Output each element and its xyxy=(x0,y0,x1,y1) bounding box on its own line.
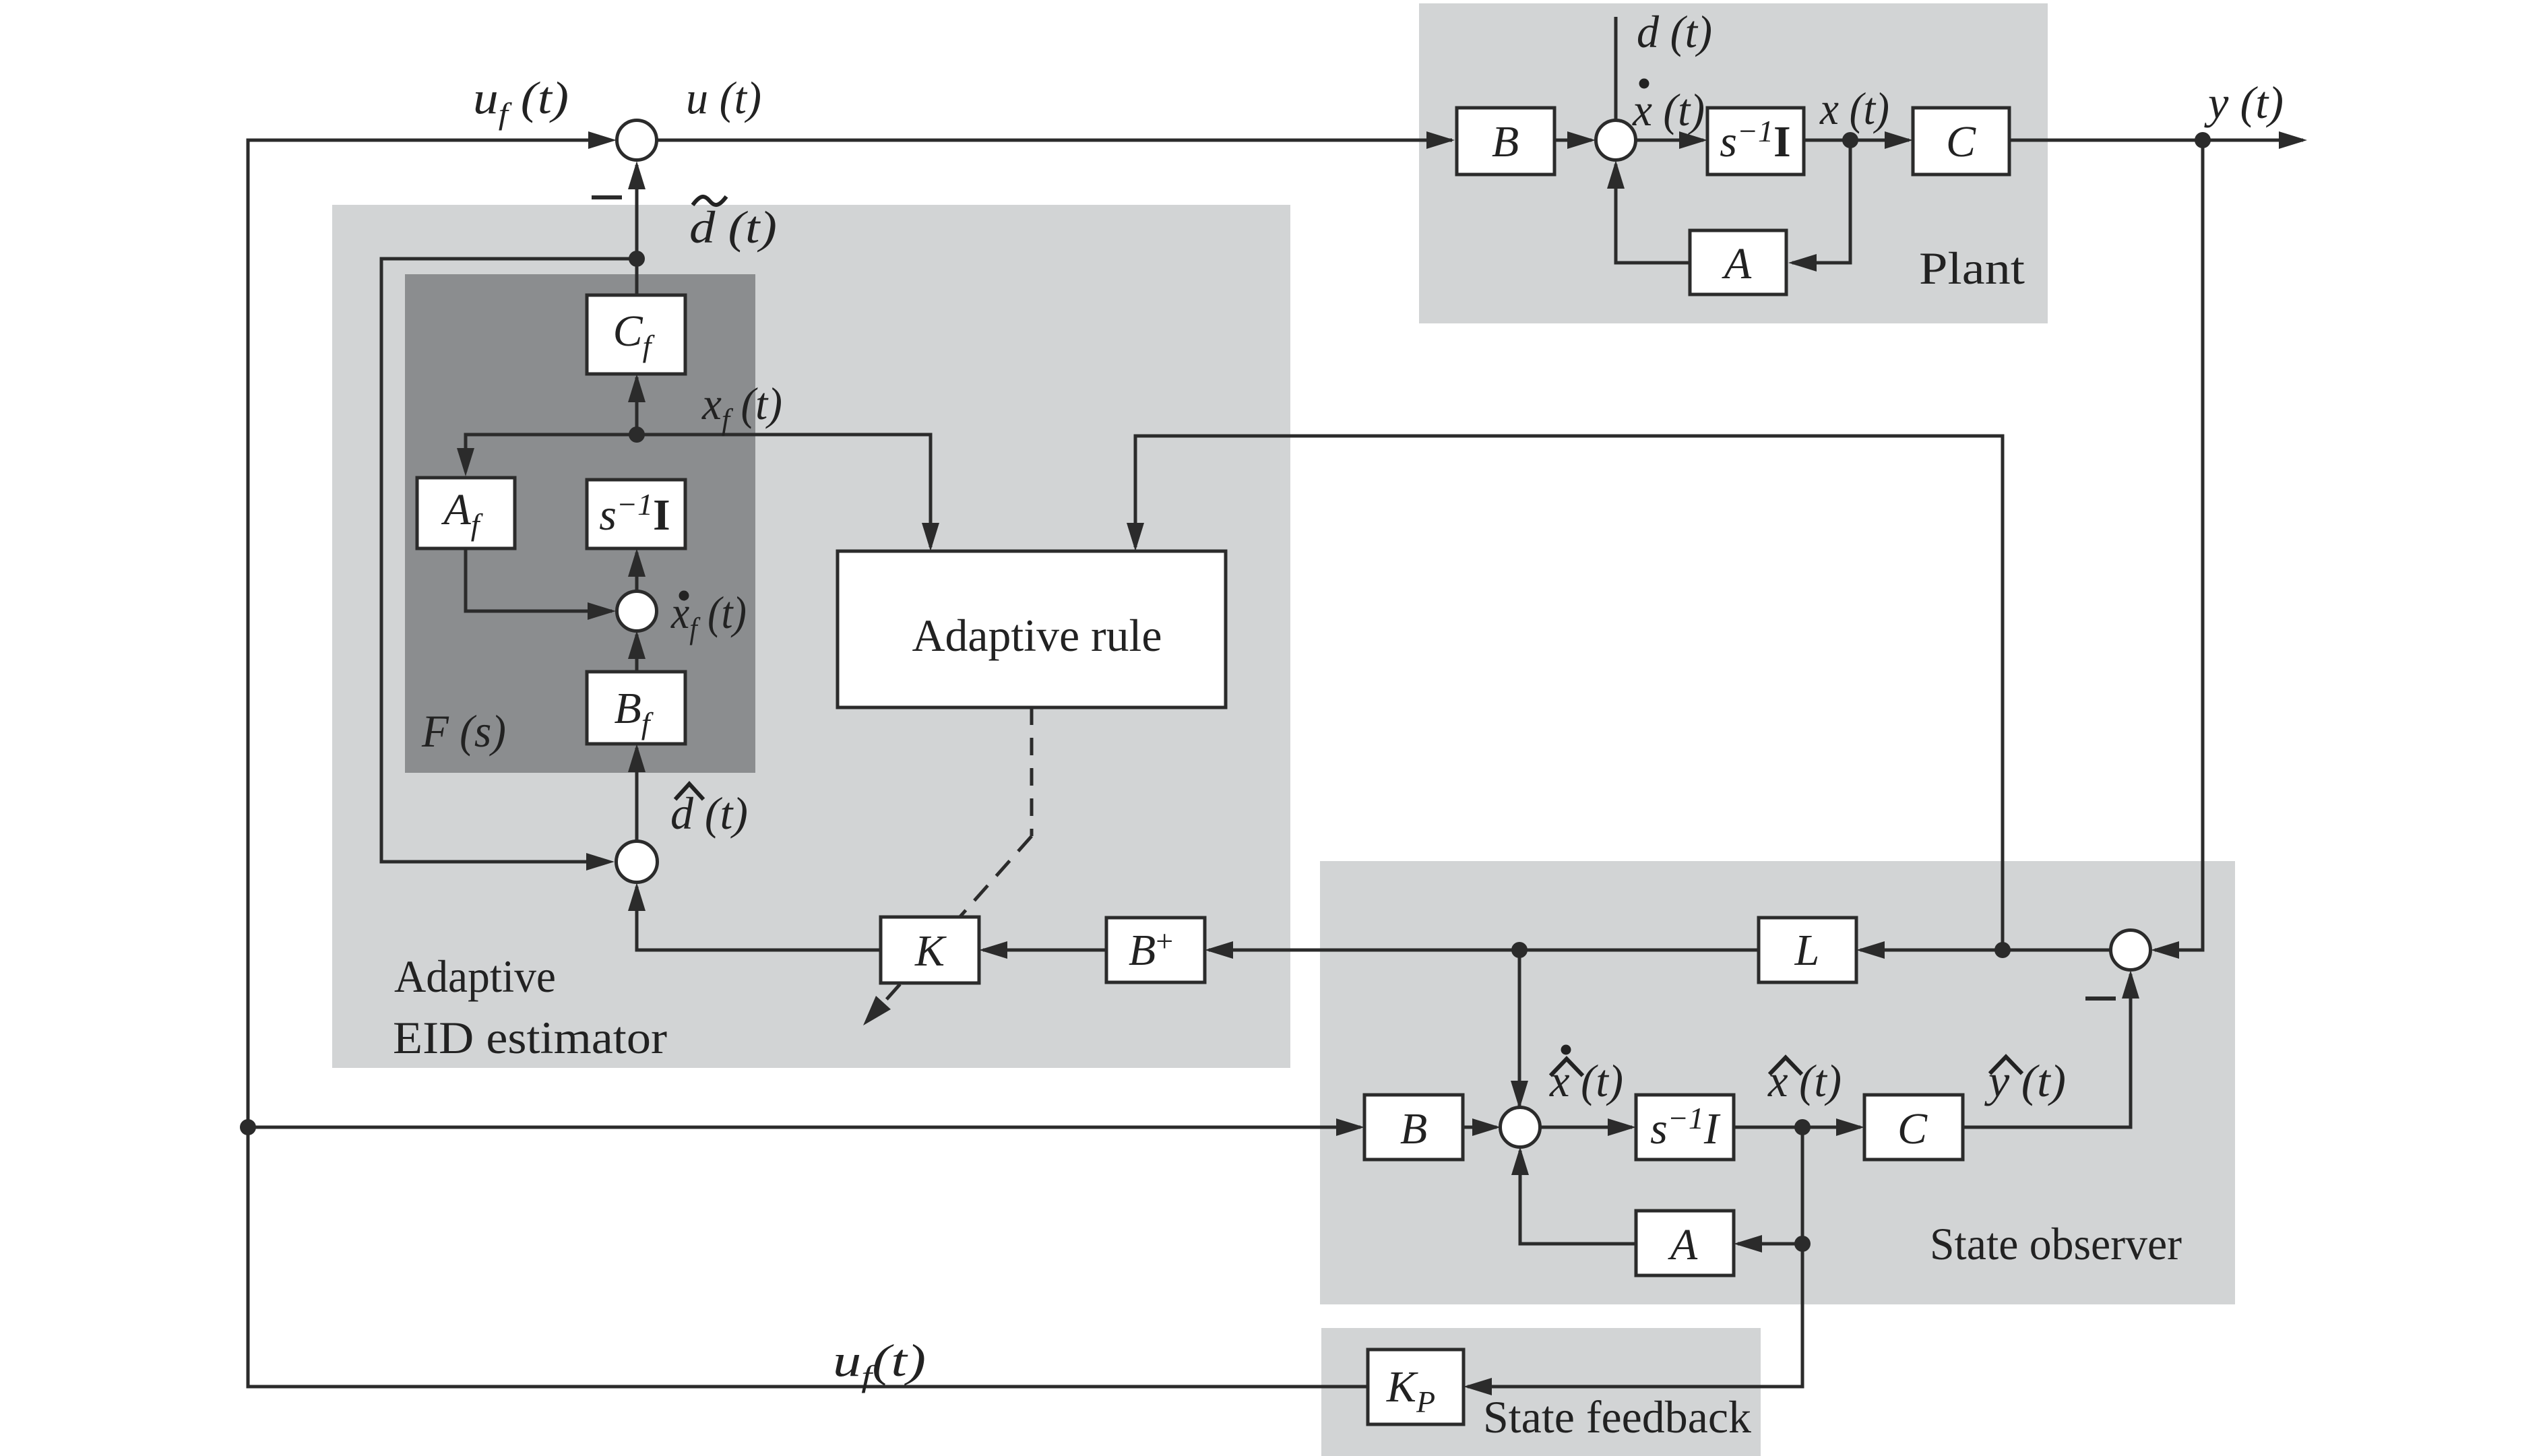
label x_f(t) xyxy=(701,378,782,437)
wire y-hat into innovation sum xyxy=(1963,970,2139,1127)
svg-text:K: K xyxy=(914,926,947,976)
wire u_f into top sum xyxy=(588,131,617,149)
wire C_f output xyxy=(635,259,639,295)
block Adaptive rule xyxy=(838,551,1226,707)
label d-tilde(t) xyxy=(689,197,777,253)
wire x_f into Adaptive rule xyxy=(637,435,939,551)
svg-text:u (t): u (t) xyxy=(686,72,761,123)
wire d(t) into plant sum xyxy=(1607,17,1625,149)
wire d-tilde feedback xyxy=(381,259,637,871)
F(s) filter block background xyxy=(405,274,755,773)
wire x-hat down to A xyxy=(1801,1127,1804,1244)
svg-text:xf (t): xf (t) xyxy=(701,378,782,437)
svg-text:A: A xyxy=(1722,239,1752,288)
label dx-hat(t) xyxy=(1549,1045,1623,1107)
block A_f xyxy=(417,478,515,548)
svg-text:uf (t): uf (t) xyxy=(473,72,569,131)
wire observer B to sum xyxy=(1463,1118,1501,1136)
wire innovation to L xyxy=(1856,941,2110,959)
wire B_f to sum xyxy=(628,631,646,672)
svg-text:Adaptive: Adaptive xyxy=(394,951,556,1002)
label x-hat(t) xyxy=(1767,1055,1842,1106)
node x xyxy=(1842,132,1858,148)
block B (observer) xyxy=(1364,1095,1463,1160)
wire observer sum to s-1I xyxy=(1540,1118,1636,1136)
wire x down to A xyxy=(1788,140,1850,272)
svg-text:y (t): y (t) xyxy=(1984,1055,2066,1106)
State feedback block background xyxy=(1321,1328,1761,1456)
wire x-hat to K_P xyxy=(1464,1244,1802,1395)
svg-text:A: A xyxy=(1668,1220,1698,1269)
wire d-hat into B_f xyxy=(628,744,646,841)
block s-1I (F) xyxy=(587,480,685,548)
wire plant sum to s-1I xyxy=(1636,131,1707,149)
wire innovation into Adaptive rule xyxy=(1127,436,2003,950)
summing junction plant xyxy=(1596,121,1636,160)
wire x-hat to C xyxy=(1734,1118,1864,1136)
block B-plus xyxy=(1106,918,1205,982)
block B_f xyxy=(587,672,685,744)
svg-text:B: B xyxy=(1492,117,1519,166)
svg-text:F (s): F (s) xyxy=(421,705,506,757)
label Adaptive xyxy=(394,951,556,1002)
wire B-plus to K xyxy=(979,941,1106,959)
label u_f(t) top xyxy=(473,72,569,131)
node d-tilde xyxy=(629,251,645,267)
label EID estimator xyxy=(393,1012,667,1063)
label Plant xyxy=(1919,243,2025,294)
wire y feedback vertical xyxy=(2151,140,2203,959)
block L xyxy=(1759,918,1856,982)
node x-hat to A xyxy=(1794,1236,1811,1252)
node y xyxy=(2195,132,2211,148)
wire d-tilde into top sum xyxy=(628,161,646,259)
wire sum to s-1I (F) xyxy=(628,548,646,592)
svg-text:y (t): y (t) xyxy=(2204,77,2284,128)
block K xyxy=(881,917,979,983)
label dx_f(t) xyxy=(670,587,747,645)
svg-text:EID estimator: EID estimator xyxy=(393,1012,667,1063)
summing junction innovation xyxy=(2111,930,2151,970)
State observer block background xyxy=(1320,861,2235,1304)
label u(t) xyxy=(686,72,761,123)
label State feedback xyxy=(1483,1391,1751,1443)
block B (plant) xyxy=(1457,108,1554,175)
label dx(t) plant xyxy=(1632,79,1705,136)
wire A_f to sum xyxy=(466,548,616,620)
node innovation branch xyxy=(1994,942,2011,958)
svg-text:uf(t): uf(t) xyxy=(833,1335,926,1393)
summing junction top (u) xyxy=(617,121,657,160)
svg-text:x (t): x (t) xyxy=(1819,83,1889,134)
svg-text:C: C xyxy=(1897,1104,1928,1153)
wire L correction into observer sum xyxy=(1511,950,1528,1113)
label u_f(t) bottom xyxy=(833,1335,926,1393)
label y-hat(t) xyxy=(1984,1055,2066,1106)
block A (observer) xyxy=(1636,1211,1734,1275)
svg-text:d (t): d (t) xyxy=(1637,6,1712,57)
wire x_f into C_f xyxy=(628,374,646,435)
block s-1I (observer) xyxy=(1636,1095,1734,1160)
wire into observer A xyxy=(1734,1235,1802,1253)
svg-text:Plant: Plant xyxy=(1919,243,2025,294)
label F(s) xyxy=(421,705,506,757)
block C_f xyxy=(587,295,685,374)
block A (plant) xyxy=(1690,230,1786,294)
label minus top sum xyxy=(592,195,622,199)
label d-hat(t) xyxy=(670,784,748,840)
svg-text:d (t): d (t) xyxy=(670,788,748,839)
label minus innovation xyxy=(2085,996,2116,1001)
svg-text:L: L xyxy=(1794,926,1820,975)
label State observer xyxy=(1930,1218,2182,1269)
node u_f to observer xyxy=(240,1119,256,1135)
svg-text:State feedback: State feedback xyxy=(1483,1391,1751,1443)
wire x_f to A_f xyxy=(457,435,637,476)
node L correction xyxy=(1511,942,1528,958)
svg-text:State observer: State observer xyxy=(1930,1218,2182,1269)
wire plant B to sum xyxy=(1554,131,1596,149)
Adaptive EID estimator block background xyxy=(332,205,1290,1068)
wire observer A to sum xyxy=(1511,1147,1636,1244)
node x_f xyxy=(629,426,645,443)
label y(t) xyxy=(2204,77,2284,128)
label d(t) plant xyxy=(1637,6,1712,57)
svg-text:d (t): d (t) xyxy=(689,201,777,253)
node x-hat xyxy=(1794,1119,1811,1135)
block K_P xyxy=(1368,1350,1464,1424)
dashed tuning line from Adaptive rule to K xyxy=(863,707,1032,1025)
summing junction d-hat xyxy=(617,842,658,883)
svg-text:C: C xyxy=(1946,117,1976,166)
Plant block background xyxy=(1419,3,2048,323)
wire plant A to sum xyxy=(1607,160,1690,263)
wire u_f left vertical xyxy=(248,140,1368,1387)
wire x to C xyxy=(1804,131,1913,149)
block s-1I (plant) xyxy=(1707,108,1804,175)
summing junction dx_f xyxy=(617,592,657,631)
svg-text:x (t): x (t) xyxy=(1632,84,1705,135)
wire y arrow xyxy=(2203,131,2307,149)
wire u(t) to plant B xyxy=(657,131,1455,149)
wire K to d-hat sum xyxy=(628,883,881,950)
wire L to B-plus xyxy=(1205,941,1759,959)
svg-text:Adaptive rule: Adaptive rule xyxy=(912,610,1162,661)
summing junction observer xyxy=(1501,1108,1540,1147)
label x(t) plant xyxy=(1819,83,1889,134)
svg-text:B: B xyxy=(1400,1104,1427,1153)
block C (observer) xyxy=(1864,1095,1963,1160)
wire u_f into observer B xyxy=(248,1118,1364,1136)
wire y output xyxy=(2009,139,2203,142)
block C (plant) xyxy=(1913,108,2009,175)
